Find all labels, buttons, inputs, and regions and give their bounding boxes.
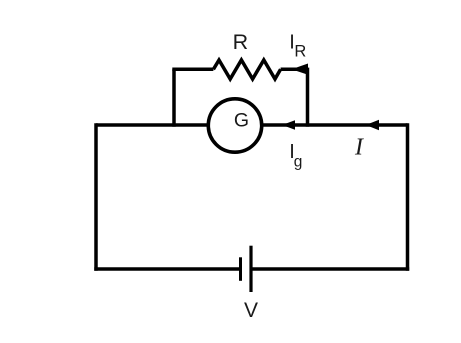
wire: main loop left vertical — [94, 123, 98, 270]
wire: main loop bottom left (to battery) — [94, 267, 240, 271]
arrowhead: current I_g (points left, right of galvanometer) — [282, 120, 295, 129]
wire: resistor branch left vertical — [172, 69, 176, 126]
svg-text:g: g — [294, 153, 303, 170]
svg-text:G: G — [234, 110, 249, 132]
wire: main loop bottom right (from battery) — [251, 267, 409, 271]
battery V: long plate (positive) — [249, 246, 252, 292]
battery V: short plate (negative) — [239, 257, 242, 281]
wire: main loop top horizontal — [96, 123, 408, 127]
wire: resistor branch right lead — [281, 68, 308, 72]
svg-text:R: R — [294, 43, 306, 61]
wire: main loop right vertical — [406, 123, 410, 270]
galvanometer G: circle — [208, 99, 261, 152]
arrowhead: current I (points left, on top right wire) — [366, 120, 379, 130]
wire: resistor branch left lead — [172, 68, 213, 72]
arrowhead: current I_R (points left, at top-right corner of resistor branch) — [292, 64, 309, 75]
svg-text:V: V — [244, 299, 258, 322]
svg-text:R: R — [233, 30, 249, 54]
wire: resistor branch right vertical — [306, 68, 310, 127]
svg-text:I: I — [354, 135, 364, 161]
resistor R (zigzag) — [213, 60, 280, 79]
